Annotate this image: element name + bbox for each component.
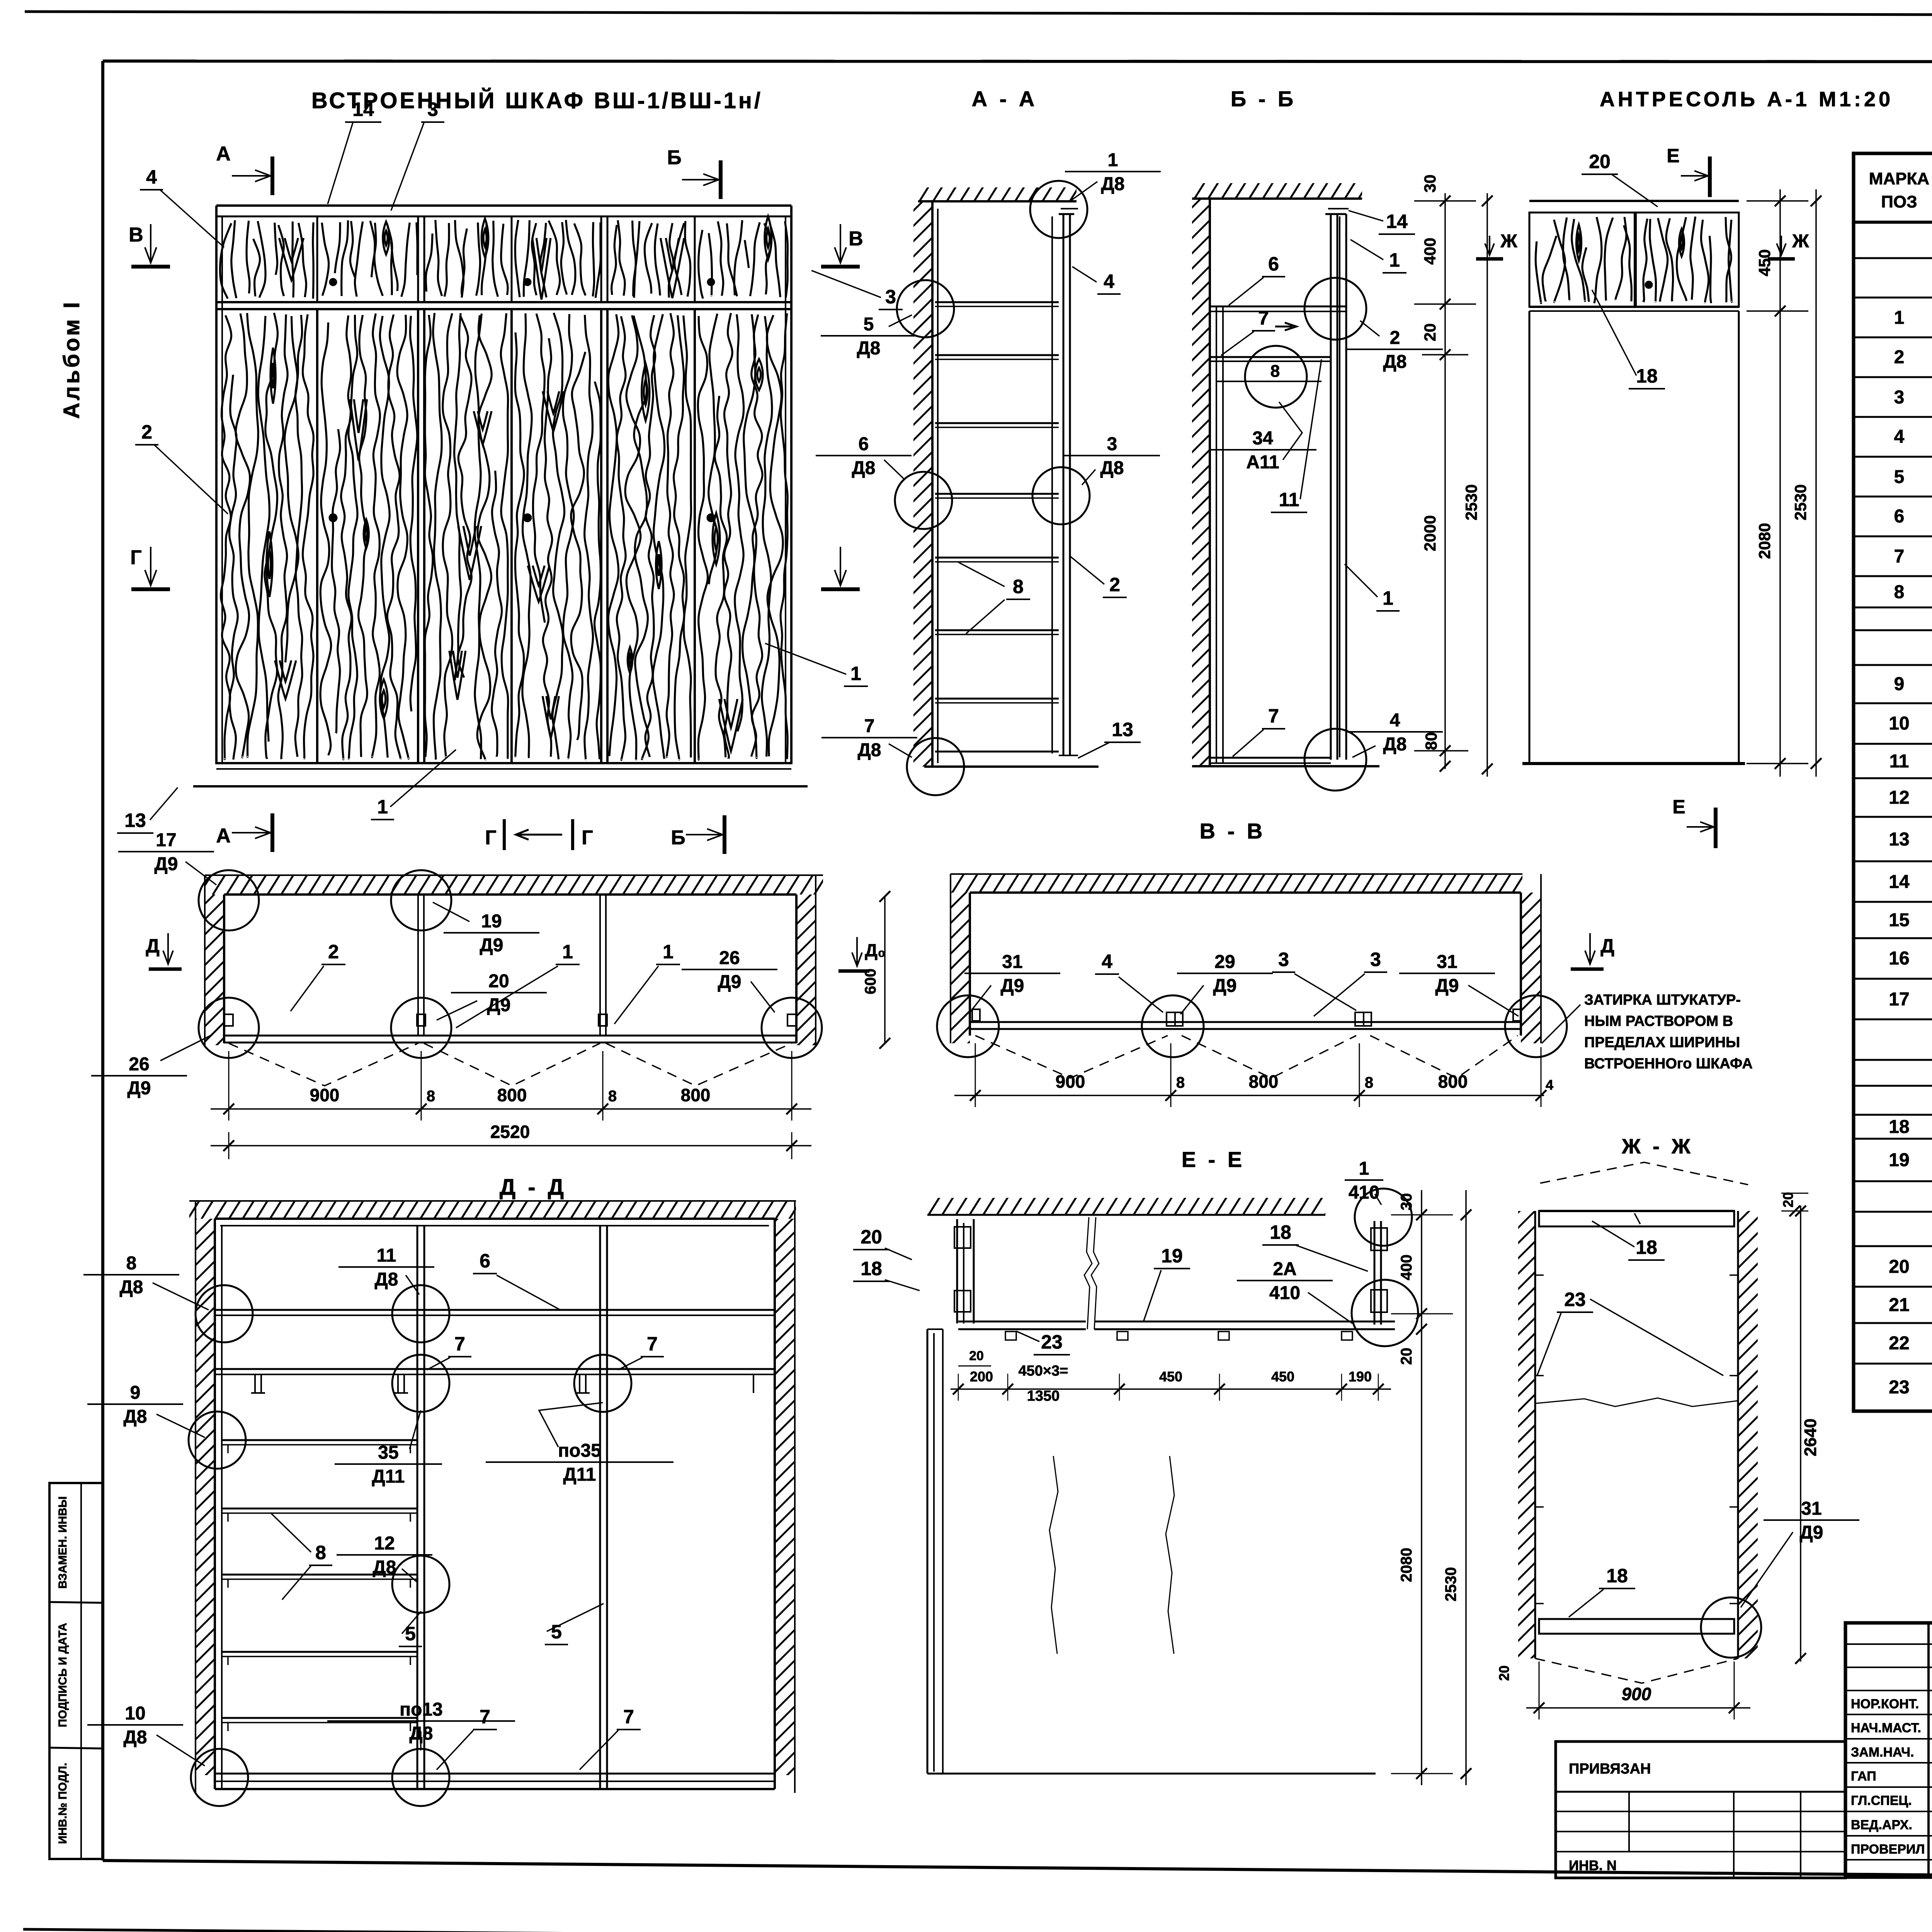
svg-text:20: 20 [1398, 1348, 1415, 1365]
svg-text:Д9: Д9 [128, 1078, 151, 1099]
svg-text:8: 8 [608, 1088, 617, 1105]
antresol view bottom of grain band [1529, 306, 1739, 308]
svg-text:7: 7 [454, 1333, 465, 1355]
plan G-G left wall hatch [205, 895, 224, 1045]
section A-A left wall hatch [913, 201, 932, 767]
svg-text:Д11: Д11 [563, 1464, 596, 1485]
svg-text:5: 5 [1894, 467, 1905, 487]
section D-D vertical divider 1 [417, 1226, 418, 1789]
section E-E lower door corner [927, 1328, 943, 1330]
svg-text:7: 7 [1258, 307, 1269, 329]
svg-text:26: 26 [129, 1054, 149, 1075]
svg-text:400: 400 [1421, 238, 1439, 265]
section E-E dim chain right overall [1465, 1190, 1467, 1785]
section A-A bottom plinth [935, 751, 1059, 753]
svg-text:20: 20 [861, 1226, 882, 1248]
svg-text:Е: Е [1667, 145, 1679, 167]
svg-text:18: 18 [1636, 365, 1658, 387]
sheet inner frame left line [101, 61, 104, 1861]
svg-text:13: 13 [1889, 829, 1909, 850]
svg-text:Б - Б: Б - Б [1231, 87, 1296, 111]
svg-text:Ж: Ж [1500, 231, 1517, 252]
plan G-G door swing dashed lines [229, 1043, 418, 1086]
front view right edge double line [790, 206, 793, 763]
plan G-G left side panel [223, 895, 225, 1043]
section A-A door top cap [1059, 213, 1074, 215]
specification table row lines [1854, 221, 1932, 224]
svg-text:НЫМ РАСТВОРОМ В: НЫМ РАСТВОРОМ В [1584, 1013, 1733, 1029]
svg-text:1: 1 [1389, 249, 1400, 271]
section E-E break line vertical [1084, 1217, 1092, 1329]
svg-text:4: 4 [1390, 710, 1400, 731]
section Zh-Zh bottom shelf [1539, 1619, 1734, 1634]
svg-text:А - А: А - А [972, 87, 1038, 111]
svg-text:по13: по13 [400, 1699, 443, 1720]
sheet outer bottom border line [23, 1929, 1932, 1932]
section E-E detail circle bottom [1352, 1280, 1418, 1346]
plan G-G front posts [224, 1014, 233, 1026]
svg-text:АНТРЕСОЛЬ А-1 М1:20: АНТРЕСОЛЬ А-1 М1:20 [1600, 88, 1893, 111]
svg-text:ЗАМ.НАЧ.: ЗАМ.НАЧ. [1851, 1745, 1914, 1760]
antresol view knob [1645, 281, 1653, 289]
svg-text:20: 20 [1421, 323, 1439, 342]
svg-text:Г: Г [485, 827, 496, 849]
svg-text:В: В [849, 228, 863, 250]
svg-text:Д: Д [1600, 935, 1614, 957]
svg-text:Г: Г [582, 827, 593, 849]
svg-text:Д8: Д8 [857, 338, 881, 359]
svg-text:18: 18 [1889, 1117, 1909, 1137]
svg-text:МАРКА: МАРКА [1869, 169, 1929, 188]
svg-text:16: 16 [1889, 948, 1909, 969]
plan G-G dim line segments [211, 1108, 811, 1110]
svg-text:410: 410 [1349, 1182, 1379, 1203]
svg-text:Д9: Д9 [155, 854, 178, 874]
svg-text:Альбом I: Альбом I [59, 300, 84, 419]
svg-text:ПРЕДЕЛАХ ШИРИНЫ: ПРЕДЕЛАХ ШИРИНЫ [1584, 1034, 1740, 1051]
svg-text:800: 800 [681, 1085, 711, 1105]
svg-text:В: В [129, 224, 143, 246]
title block outline [1845, 1623, 1932, 1877]
section A-A left wall face line [931, 201, 934, 767]
svg-text:1: 1 [850, 663, 861, 684]
section E-E right door brackets [1371, 1228, 1387, 1250]
svg-text:Д9: Д9 [1213, 976, 1237, 996]
svg-text:ИНВ. N: ИНВ. N [1569, 1857, 1617, 1873]
section Zh-Zh detail circle bottom right [1701, 1597, 1761, 1658]
plan G-G overall dim [211, 1145, 811, 1146]
svg-text:Г: Г [130, 546, 141, 569]
svg-text:2: 2 [1109, 574, 1120, 595]
svg-text:8: 8 [315, 1542, 326, 1563]
svg-text:3: 3 [427, 99, 438, 120]
section A-A door leaf double line [1063, 214, 1065, 755]
antresol view wood grain left door [1536, 217, 1631, 303]
svg-text:10: 10 [1889, 713, 1909, 734]
title block signature columns [1927, 1623, 1930, 1877]
svg-text:Д8: Д8 [858, 740, 881, 760]
svg-text:Б: Б [667, 146, 681, 169]
svg-text:Ж - Ж: Ж - Ж [1621, 1135, 1694, 1158]
specification table outer box [1854, 153, 1932, 1411]
section D-D left wall hatch [196, 1219, 215, 1775]
svg-text:20: 20 [488, 971, 509, 992]
antresol view top rail [1529, 200, 1739, 202]
svg-text:11: 11 [1889, 751, 1909, 772]
section Zh-Zh right wall hatch [1738, 1211, 1758, 1658]
svg-text:Д9: Д9 [1435, 976, 1459, 996]
svg-text:Д - Д: Д - Д [500, 1175, 567, 1200]
svg-text:8: 8 [1270, 362, 1280, 381]
svg-text:7: 7 [1268, 705, 1279, 727]
section E-E ceiling hatch [927, 1198, 1325, 1215]
svg-text:19: 19 [481, 911, 502, 932]
svg-text:22: 22 [1889, 1333, 1909, 1354]
svg-text:17: 17 [156, 830, 176, 850]
section E-E break lines lower [1049, 1456, 1058, 1654]
svg-text:5: 5 [864, 314, 874, 335]
antresol view door divider [1634, 213, 1637, 307]
svg-text:ВСТРОЕННОго ШКАФА: ВСТРОЕННОго ШКАФА [1584, 1056, 1753, 1072]
section B-B dim chain inner [1444, 193, 1446, 769]
section E-E antresol left door brackets [954, 1227, 971, 1248]
svg-text:Е: Е [1672, 796, 1685, 818]
plan G-G right side panel [795, 895, 798, 1043]
front view main door area outline [216, 309, 791, 763]
sheet inner frame top line [103, 61, 1932, 62]
front view left edge double line [215, 206, 218, 763]
svg-text:18: 18 [861, 1258, 882, 1279]
svg-text:Д8: Д8 [1383, 734, 1407, 755]
svg-text:31: 31 [1801, 1498, 1821, 1519]
svg-text:20: 20 [1589, 151, 1611, 172]
section E-E bottom floor line [927, 1773, 1376, 1775]
section A-A shelves [935, 301, 1059, 303]
svg-text:2А: 2А [1273, 1259, 1296, 1279]
svg-text:26: 26 [719, 948, 740, 968]
svg-text:1: 1 [562, 941, 573, 963]
svg-text:15: 15 [1889, 910, 1909, 930]
svg-text:900: 900 [1056, 1071, 1085, 1092]
svg-text:410: 410 [1269, 1283, 1300, 1303]
svg-text:Ж: Ж [1792, 231, 1809, 252]
svg-text:3: 3 [1107, 434, 1117, 454]
front view antresol band wood grain [220, 220, 314, 299]
svg-text:30: 30 [1421, 175, 1439, 193]
svg-text:4: 4 [1104, 270, 1114, 292]
section Zh-Zh dim 2640 [1800, 1206, 1801, 1662]
svg-text:7: 7 [1894, 546, 1905, 567]
svg-text:8: 8 [1365, 1074, 1373, 1091]
svg-text:6: 6 [480, 1250, 490, 1272]
svg-text:20: 20 [969, 1349, 984, 1363]
svg-text:29: 29 [1214, 952, 1235, 972]
section D-D left column side [221, 1226, 223, 1789]
section E-E antresol shelf band [958, 1321, 1086, 1323]
svg-text:14: 14 [352, 99, 374, 120]
svg-text:Д9: Д9 [1800, 1522, 1823, 1543]
stamp column inner vertical [80, 1483, 82, 1859]
svg-text:19: 19 [1889, 1150, 1909, 1170]
svg-text:30: 30 [1398, 1193, 1415, 1211]
svg-text:400: 400 [1398, 1255, 1415, 1281]
svg-text:200: 200 [970, 1369, 993, 1384]
svg-text:Д: Д [146, 935, 160, 957]
svg-text:ИНВ.№ ПОДЛ.: ИНВ.№ ПОДЛ. [56, 1763, 69, 1844]
svg-text:21: 21 [1889, 1295, 1909, 1315]
svg-text:7: 7 [480, 1706, 490, 1728]
svg-text:11: 11 [377, 1245, 396, 1266]
section A-A ceiling hatch [918, 187, 1077, 201]
svg-text:14: 14 [1889, 872, 1910, 892]
title block thin top rows [1845, 1643, 1932, 1645]
svg-text:10: 10 [125, 1703, 145, 1724]
svg-text:4: 4 [146, 166, 157, 188]
plan G-G right wall hatch [796, 895, 816, 1045]
svg-text:23: 23 [1564, 1289, 1586, 1310]
section D-D hanging rail zone lines [215, 1368, 775, 1370]
svg-text:Д8: Д8 [1100, 458, 1124, 478]
svg-text:ВСТРОЕННЫЙ ШКАФ ВШ-1/ВШ-1н/: ВСТРОЕННЫЙ ШКАФ ВШ-1/ВШ-1н/ [311, 88, 763, 113]
svg-text:2640: 2640 [1801, 1418, 1820, 1456]
svg-text:Д8: Д8 [1101, 174, 1125, 194]
svg-text:8: 8 [427, 1088, 435, 1105]
section E-E lower cabinet door left [927, 1329, 929, 1774]
svg-text:13: 13 [1112, 719, 1133, 740]
svg-text:1: 1 [377, 796, 388, 818]
section Zh-Zh shelf mid tick top [1634, 1213, 1640, 1224]
plan V-V cabinet top line [970, 891, 1521, 894]
plan G-G depth dim [884, 896, 886, 1043]
attachment table grid rows [1556, 1811, 1845, 1812]
svg-text:2080: 2080 [1755, 523, 1774, 559]
svg-text:9: 9 [1894, 674, 1905, 694]
svg-text:ВЕД.АРХ.: ВЕД.АРХ. [1851, 1818, 1912, 1832]
svg-text:7: 7 [623, 1706, 634, 1728]
section E-E detail circle top [1355, 1189, 1412, 1246]
plan V-V right wall hatch [1521, 893, 1541, 1043]
section A-A detail circle wall mid [895, 472, 952, 529]
svg-text:20: 20 [1889, 1257, 1909, 1277]
section B-B left inner panel [1216, 306, 1217, 763]
svg-text:18: 18 [1270, 1221, 1291, 1243]
svg-text:Д8: Д8 [852, 458, 876, 478]
section D-D top inner line [220, 1225, 769, 1226]
svg-text:900: 900 [310, 1085, 340, 1105]
section Zh-Zh wall inner ticks [1535, 1274, 1544, 1276]
section mark G right arrow [840, 547, 841, 585]
plan V-V door swing dashed lines [975, 1036, 1168, 1078]
svg-text:ПРИВЯЗАН: ПРИВЯЗАН [1569, 1761, 1651, 1777]
plan G-G divider panels [417, 895, 419, 1036]
attachment table header row line [1556, 1791, 1845, 1793]
plan V-V detail circles [937, 995, 999, 1057]
svg-text:7: 7 [647, 1333, 658, 1355]
svg-text:Д8: Д8 [124, 1406, 147, 1427]
section Zh-Zh break line [1535, 1398, 1738, 1406]
section D-D right wall hatch [775, 1219, 795, 1775]
svg-text:НОР.КОНТ.: НОР.КОНТ. [1851, 1697, 1919, 1711]
section Zh-Zh bottom dashed [1535, 1658, 1738, 1683]
svg-text:800: 800 [497, 1085, 527, 1105]
sheet outer top border line [25, 12, 1932, 16]
svg-text:12: 12 [1889, 787, 1909, 808]
svg-text:Д8: Д8 [373, 1557, 396, 1578]
section Zh-Zh top dashed peak [1540, 1162, 1748, 1185]
svg-text:23: 23 [1889, 1377, 1909, 1398]
antresol dim chain overall [1815, 189, 1817, 777]
svg-text:ПРОВЕРИЛ: ПРОВЕРИЛ [1851, 1842, 1925, 1857]
svg-text:34: 34 [1252, 428, 1273, 449]
svg-text:31: 31 [1437, 952, 1457, 972]
plan V-V left wall hatch [951, 893, 970, 1043]
plan G-G cabinet top line [224, 893, 796, 896]
section A-A detail circle top right [1030, 181, 1087, 238]
svg-text:2530: 2530 [1791, 484, 1810, 520]
section B-B detail circle rod [1245, 346, 1307, 408]
svg-text:2: 2 [328, 941, 339, 963]
section B-B bottom plinth [1210, 757, 1331, 759]
section B-B ceiling hatch [1192, 183, 1362, 199]
svg-text:Д11: Д11 [372, 1466, 405, 1487]
svg-text:23: 23 [1041, 1331, 1063, 1353]
front view top rail [216, 204, 791, 207]
plan V-V bottom shelf double line [970, 1021, 1521, 1023]
svg-text:2: 2 [141, 421, 152, 443]
section Zh-Zh dim 900 [1526, 1707, 1750, 1709]
svg-text:Д9: Д9 [480, 935, 503, 956]
svg-text:4: 4 [1102, 951, 1112, 972]
svg-text:4: 4 [1546, 1077, 1553, 1093]
plan G-G bottom shelf edge double line [224, 1035, 796, 1037]
plan V-V divider posts [1167, 1012, 1175, 1026]
section Zh-Zh top shelf [1539, 1211, 1734, 1226]
svg-text:1: 1 [663, 941, 673, 963]
section E-E dim chain right inner [1421, 1190, 1422, 1785]
svg-text:6: 6 [859, 434, 869, 454]
svg-text:ПОДПИСЬ И ДАТА: ПОДПИСЬ И ДАТА [56, 1623, 69, 1727]
section B-B rod lines [1210, 356, 1331, 358]
section A-A detail circle bottom [907, 738, 964, 795]
antresol view grain band outline [1529, 213, 1739, 307]
section D-D detail circle rod right [574, 1355, 631, 1412]
svg-text:7: 7 [864, 716, 875, 736]
section A-A detail circle shelf mid [1032, 467, 1090, 524]
svg-text:2000: 2000 [1421, 515, 1439, 551]
svg-text:Д8: Д8 [375, 1269, 398, 1290]
section B-B dim chain overall [1486, 193, 1488, 777]
plan V-V corner posts [972, 1009, 980, 1021]
front view bottom rail [216, 762, 791, 764]
svg-text:450: 450 [1271, 1369, 1294, 1384]
section E-E right door post double lines [1374, 1221, 1376, 1325]
svg-text:450: 450 [1755, 249, 1774, 276]
section Zh-Zh left wall hatch [1518, 1211, 1535, 1658]
section B-B floor line [1192, 765, 1379, 767]
plaster note leader [1542, 1005, 1580, 1043]
front view main doors wood grain [221, 313, 313, 760]
section D-D detail circles divider [392, 1285, 449, 1342]
svg-text:800: 800 [1438, 1071, 1468, 1092]
section A-A cabinet side panel [937, 209, 939, 763]
svg-text:2520: 2520 [490, 1122, 530, 1142]
svg-text:17: 17 [1889, 989, 1909, 1010]
svg-text:3: 3 [885, 286, 896, 308]
svg-text:20: 20 [1496, 1665, 1512, 1681]
section D-D vertical divider 2 [599, 1226, 601, 1789]
svg-text:8: 8 [126, 1253, 137, 1274]
section E-E inner dim line [951, 1388, 1391, 1390]
svg-text:8: 8 [1894, 582, 1905, 602]
svg-text:ГАП: ГАП [1851, 1769, 1876, 1784]
section B-B antresol shelf [1210, 306, 1346, 308]
section A-A detail circle wall upper [897, 280, 954, 337]
section D-D shelves left column [222, 1439, 417, 1441]
title block signature row lines [1845, 1690, 1932, 1691]
svg-text:Д₀: Д₀ [865, 940, 886, 960]
section B-B left wall face line [1209, 199, 1211, 766]
sheet inner frame bottom line [103, 1861, 1932, 1881]
section B-B door leaf double line [1330, 214, 1332, 760]
svg-text:14: 14 [1386, 211, 1408, 232]
svg-text:ПОЗ: ПОЗ [1881, 192, 1917, 211]
front view antresol band dividers [316, 216, 318, 302]
svg-text:450×3=: 450×3= [1019, 1363, 1068, 1379]
svg-text:Б: Б [671, 827, 685, 849]
section B-B door inner line [1339, 216, 1340, 757]
svg-text:8: 8 [1176, 1074, 1185, 1091]
svg-text:2080: 2080 [1398, 1548, 1415, 1582]
stamp column divider 1 [49, 1602, 102, 1603]
svg-text:19: 19 [1161, 1245, 1183, 1267]
antresol dim chain inner [1779, 189, 1781, 777]
svg-text:4: 4 [1894, 427, 1905, 447]
svg-text:12: 12 [374, 1533, 395, 1554]
antresol view wood grain right door [1643, 216, 1732, 303]
plan V-V dim line [954, 1095, 1544, 1096]
svg-text:по35: по35 [558, 1440, 601, 1461]
svg-text:ЗАТИРКА ШТУКАТУР-: ЗАТИРКА ШТУКАТУР- [1584, 992, 1741, 1008]
svg-text:9: 9 [130, 1383, 141, 1403]
svg-text:1: 1 [1894, 308, 1905, 328]
svg-text:8: 8 [1013, 576, 1024, 597]
section B-B detail circle top [1304, 278, 1366, 340]
svg-text:3: 3 [1894, 387, 1905, 408]
svg-text:6: 6 [1268, 253, 1279, 275]
section B-B detail circle bottom [1304, 729, 1366, 791]
antresol view bottom line [1522, 762, 1745, 765]
section B-B door top cap [1325, 213, 1346, 215]
svg-text:1: 1 [1108, 150, 1118, 170]
svg-text:20: 20 [1780, 1192, 1796, 1207]
svg-text:1: 1 [1359, 1158, 1369, 1179]
svg-text:А: А [216, 825, 231, 847]
svg-text:5: 5 [405, 1623, 416, 1645]
svg-text:3: 3 [1370, 949, 1381, 970]
svg-text:450: 450 [1159, 1369, 1182, 1384]
section B-B left wall hatch [1192, 199, 1210, 766]
svg-text:800: 800 [1249, 1071, 1279, 1092]
svg-text:Д8: Д8 [120, 1277, 143, 1298]
svg-text:80: 80 [1422, 732, 1440, 750]
svg-text:13: 13 [124, 810, 146, 831]
svg-text:3: 3 [1278, 949, 1289, 970]
svg-text:1: 1 [1383, 587, 1393, 609]
section D-D shelf supports left column [227, 1445, 229, 1453]
front view antresol knobs [329, 278, 337, 286]
front view plinth line [193, 785, 808, 787]
svg-text:31: 31 [1002, 952, 1022, 972]
